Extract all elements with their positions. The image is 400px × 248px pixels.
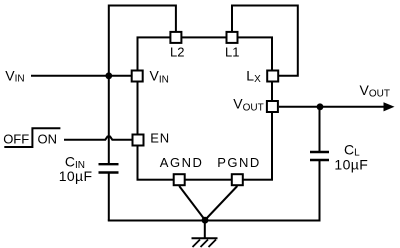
svg-text:PGND: PGND bbox=[217, 155, 261, 170]
node ground junction bbox=[202, 217, 209, 224]
waveform OFF/ON step bbox=[4, 128, 60, 147]
svg-text:10µF: 10µF bbox=[59, 168, 93, 184]
wire CIN lower bbox=[108, 173, 110, 221]
arrow VOUT bbox=[384, 102, 395, 111]
ground bbox=[192, 220, 218, 247]
wire VIN input bbox=[31, 75, 133, 77]
wire PGND diagonal bbox=[205, 186, 237, 220]
pin LX bbox=[267, 71, 278, 82]
wire CIN upper bbox=[108, 76, 110, 164]
pin L2 bbox=[170, 32, 181, 43]
pin PGND bbox=[232, 174, 243, 185]
svg-text:VIN: VIN bbox=[5, 67, 24, 84]
wire EN with hop over CIN line bbox=[64, 137, 133, 140]
wire AGND diagonal bbox=[179, 186, 205, 220]
pin AGND bbox=[174, 174, 185, 185]
svg-text:AGND: AGND bbox=[160, 155, 204, 170]
pin VIN bbox=[132, 71, 143, 82]
wire CL lower bbox=[319, 160, 321, 221]
svg-text:L2: L2 bbox=[170, 45, 184, 60]
svg-text:L1: L1 bbox=[225, 45, 239, 60]
wire L1 to LX loop bbox=[232, 6, 298, 76]
capacitor CIN bbox=[99, 164, 119, 172]
wire VOUT output bbox=[279, 106, 386, 108]
node VIN junction bbox=[105, 72, 112, 79]
svg-text:VOUT: VOUT bbox=[360, 82, 390, 99]
node VOUT junction bbox=[317, 103, 324, 110]
capacitor CL bbox=[310, 152, 329, 160]
IC U1 body bbox=[138, 37, 273, 179]
pin VOUT bbox=[267, 101, 278, 112]
pin L1 bbox=[227, 32, 238, 43]
svg-text:EN: EN bbox=[150, 131, 170, 146]
wire VIN riser to top rail bbox=[109, 6, 176, 77]
svg-text:OFF: OFF bbox=[3, 131, 29, 146]
wire ground rail bbox=[108, 220, 321, 222]
pin EN bbox=[133, 135, 144, 146]
svg-text:ON: ON bbox=[38, 131, 58, 146]
wire CL upper bbox=[319, 107, 321, 151]
svg-text:10µF: 10µF bbox=[334, 157, 368, 173]
